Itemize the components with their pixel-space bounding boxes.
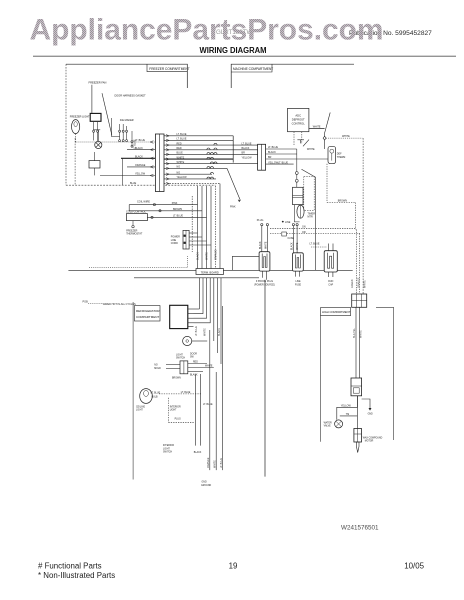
- svg-text:ORANGE: ORANGE: [357, 277, 360, 288]
- svg-text:BLACK: BLACK: [196, 252, 199, 260]
- svg-text:PLUG: PLUG: [175, 419, 181, 421]
- terminal strip: [196, 269, 223, 275]
- svg-text:DOOR: DOOR: [190, 353, 197, 355]
- svg-text:YELLOW: YELLOW: [242, 156, 253, 159]
- brown wire drop: [354, 203, 356, 230]
- compressor connector block: [352, 294, 367, 307]
- title underline: [33, 55, 456, 57]
- svg-text:LT. BLUE: LT. BLUE: [310, 242, 320, 245]
- yellow wire: [337, 396, 358, 420]
- refrigerator compartment left edge: [132, 302, 134, 480]
- rotated labels at riser bottoms: [207, 457, 223, 468]
- relay B stems: [295, 271, 297, 277]
- orange dashed wire: [270, 233, 360, 235]
- defrost riser diagonal: [325, 113, 331, 137]
- svg-text:GROUND: GROUND: [201, 485, 212, 487]
- defrost timer box: [293, 187, 304, 204]
- svg-text:RED: RED: [177, 147, 182, 150]
- defrost timer connector pins: [295, 149, 298, 187]
- rotated wire labels below connector: [353, 327, 362, 338]
- relay C feed wires: [328, 244, 333, 251]
- svg-text:GND: GND: [368, 413, 373, 415]
- svg-text:FREEZER LIGHT: FREEZER LIGHT: [70, 115, 90, 118]
- machine compartment label box: [231, 64, 273, 72]
- door harness gasket leader line: [102, 93, 112, 135]
- svg-text:W241576501: W241576501: [341, 525, 379, 532]
- defrost heater dashed drop: [326, 164, 328, 203]
- ADC adaptive defrost control box: [288, 108, 309, 131]
- svg-text:LT. BLUE: LT. BLUE: [268, 146, 278, 149]
- svg-text:LT. BLUE: LT. BLUE: [173, 215, 183, 218]
- svg-text:GREEN: GREEN: [351, 279, 354, 288]
- svg-text:LIGHT: LIGHT: [136, 410, 143, 412]
- main bus line: [68, 269, 352, 271]
- compressor relay box: [351, 378, 362, 396]
- bundle wire labels right of CN1: [177, 133, 188, 179]
- svg-text:VALVE: VALVE: [324, 425, 332, 428]
- svg-text:ORANGE: ORANGE: [214, 249, 217, 260]
- compressor drop wires: [356, 307, 360, 378]
- svg-text:WHITE: WHITE: [364, 280, 367, 288]
- svg-text:BLACK: BLACK: [259, 241, 262, 249]
- ice maker connector pins: [119, 124, 128, 142]
- ADC ground tee: [297, 140, 309, 147]
- svg-text:YELLOW: YELLOW: [135, 173, 146, 176]
- svg-text:RED: RED: [193, 362, 198, 364]
- machine compartment outline: [231, 64, 354, 88]
- icemaker branch wire: [122, 158, 124, 185]
- svg-text:NO: NO: [177, 166, 181, 169]
- svg-text:RUN: RUN: [328, 281, 333, 283]
- svg-text:19: 19: [229, 562, 238, 571]
- branch bus dotted line: [89, 256, 188, 268]
- green dashed wire: [270, 227, 355, 229]
- svg-text:WHITE: WHITE: [177, 161, 185, 164]
- svg-text:LT. BLUE: LT. BLUE: [195, 326, 198, 336]
- svg-text:PGB: PGB: [83, 300, 89, 303]
- ground drop from relay: [362, 399, 370, 409]
- high compartment left edge: [320, 316, 322, 442]
- svg-text:LT. BLUE: LT. BLUE: [203, 404, 213, 406]
- coil wire: [129, 204, 197, 206]
- relay C stems: [327, 272, 329, 277]
- second mid wire: [134, 210, 202, 212]
- svg-text:HIGH COMPARTMENT: HIGH COMPARTMENT: [322, 310, 351, 314]
- high compartment top edge right: [376, 307, 394, 440]
- motor tee bar: [93, 130, 100, 142]
- svg-text:# Functional Parts: # Functional Parts: [38, 562, 102, 571]
- freezer compartment left dotted edge: [65, 64, 67, 185]
- svg-text:YELLOW: YELLOW: [177, 176, 188, 179]
- svg-text:CEILING: CEILING: [136, 406, 145, 408]
- svg-text:BLACK: BLACK: [268, 151, 276, 154]
- svg-text:LT. BLUE: LT. BLUE: [220, 458, 223, 468]
- svg-text:3 PRONG PLUG: 3 PRONG PLUG: [256, 281, 273, 283]
- svg-text:PLUG: PLUG: [257, 219, 264, 222]
- switch leads: [166, 364, 214, 372]
- plug riser wires: [261, 224, 299, 253]
- svg-text:(POWER SOURCE): (POWER SOURCE): [254, 284, 275, 286]
- svg-text:WHITE: WHITE: [307, 148, 315, 151]
- relay wire between: [356, 396, 358, 429]
- svg-text:BLUE: BLUE: [177, 152, 184, 155]
- svg-text:AppliancePartsPros.com: AppliancePartsPros.com: [30, 13, 384, 46]
- svg-text:FREEZER COMPARTMENT: FREEZER COMPARTMENT: [149, 67, 189, 71]
- relay B line fuse: [293, 253, 304, 271]
- freezer light stem wire: [75, 134, 77, 143]
- relay C dotted leader: [311, 246, 327, 248]
- timer frame right riser: [315, 177, 317, 270]
- svg-text:THERMOSTAT: THERMOSTAT: [126, 233, 143, 236]
- svg-text:PINK: PINK: [172, 202, 178, 205]
- high compartment label box: [321, 308, 351, 316]
- svg-text:BLACK: BLACK: [135, 156, 143, 159]
- defrost timer motor: [297, 205, 304, 218]
- svg-text:GND: GND: [202, 482, 207, 484]
- pointer arrow to plug: [227, 168, 240, 200]
- line node: [282, 221, 284, 223]
- svg-text:BLK-YEL: BLK-YEL: [353, 327, 356, 338]
- labels near switch leads: [172, 362, 213, 380]
- bulb dashed wire: [159, 393, 201, 395]
- machine right dashed riser: [362, 138, 364, 294]
- water valve: [335, 420, 343, 428]
- svg-text:WHITE: WHITE: [203, 328, 206, 336]
- relay C capacitor: [324, 251, 337, 272]
- svg-text:* Non-Illustrated Parts: * Non-Illustrated Parts: [38, 571, 115, 580]
- timer frame left: [294, 205, 299, 222]
- node to CN2 white wire riser: [324, 140, 326, 149]
- harness bundle right of CN1: [164, 136, 258, 184]
- cold control output wire: [147, 216, 206, 218]
- svg-text:INTERIOR: INTERIOR: [163, 445, 174, 447]
- strip to relay jog wire: [232, 256, 259, 270]
- svg-text:MACHINE COMPARTMENT: MACHINE COMPARTMENT: [233, 67, 273, 71]
- freezer compartment inner dashed edge: [74, 138, 76, 185]
- timer diagonal feed: [302, 169, 316, 177]
- svg-text:LINE: LINE: [295, 281, 301, 283]
- gasket elbow wire: [112, 118, 120, 137]
- svg-text:ADC: ADC: [295, 114, 301, 118]
- svg-text:WHITE: WHITE: [205, 252, 208, 260]
- long interior riser wires: [210, 306, 223, 470]
- svg-text:ORANGE: ORANGE: [207, 457, 210, 468]
- timer dashed enclosure: [304, 177, 314, 211]
- compressor feed wires: [356, 229, 359, 294]
- power cord connector leads: [189, 233, 211, 245]
- svg-text:10/05: 10/05: [404, 562, 424, 571]
- svg-text:LT. BLUE: LT. BLUE: [177, 133, 187, 136]
- svg-text:MOLD: MOLD: [154, 368, 161, 370]
- svg-text:MTR: MTR: [308, 216, 313, 219]
- svg-text:BLUE: BLUE: [130, 182, 137, 185]
- node diamond: [323, 136, 326, 140]
- riser rotated labels: [196, 249, 217, 260]
- svg-text:FUSE: FUSE: [288, 237, 295, 240]
- freezer fan motor symbol: [95, 141, 102, 148]
- relay A power plug: [259, 252, 270, 271]
- svg-text:LIGHT: LIGHT: [170, 410, 177, 412]
- svg-text:WIRING DIAGRAM: WIRING DIAGRAM: [200, 45, 267, 55]
- diagram placeholder groups inserted below: [66, 64, 394, 487]
- freezer compartment bottom dashed edge: [66, 184, 216, 186]
- svg-text:WHITE: WHITE: [266, 241, 268, 249]
- tm wire: [340, 415, 358, 417]
- svg-text:WHITE: WHITE: [213, 460, 216, 468]
- svg-text:BROWN: BROWN: [172, 378, 181, 380]
- refrigerator compartment label box: [134, 306, 160, 321]
- interior switch label: [163, 445, 174, 453]
- svg-text:THERM: THERM: [337, 156, 346, 159]
- svg-text:LT. BLUE: LT. BLUE: [135, 139, 145, 142]
- freezer fan motor box: [90, 113, 101, 121]
- rotated labels above compressor connector: [351, 277, 366, 288]
- svg-text:LIGHT: LIGHT: [176, 354, 183, 356]
- svg-text:BR: BR: [242, 152, 246, 155]
- svg-text:COLD CONTROL: COLD CONTROL: [126, 211, 146, 214]
- svg-text:SWITCH: SWITCH: [163, 452, 172, 454]
- svg-text:MOTOR: MOTOR: [365, 441, 374, 443]
- relay A stems: [262, 271, 264, 278]
- interior light dashed frame: [167, 398, 169, 423]
- svg-text:CORD: CORD: [171, 242, 178, 245]
- svg-text:OR: OR: [302, 231, 306, 234]
- svg-text:TERM. BOARD: TERM. BOARD: [201, 271, 219, 275]
- svg-text:CAP: CAP: [328, 283, 333, 286]
- svg-text:WHITE: WHITE: [177, 156, 185, 159]
- brown dashed wire: [327, 202, 355, 204]
- note leader dotted: [88, 303, 102, 305]
- svg-text:COMPARTMENT: COMPARTMENT: [136, 315, 159, 319]
- svg-text:LT. BLUE: LT. BLUE: [278, 161, 288, 164]
- svg-text:PINK: PINK: [230, 205, 236, 208]
- fan connector pins: [93, 122, 99, 141]
- connector chevrons right: [166, 135, 169, 185]
- wires down from terminal strip: [194, 278, 222, 364]
- harness wires into connector CN1 (left side): [76, 142, 156, 176]
- svg-text:BR: BR: [268, 156, 272, 159]
- svg-text:BLACK: BLACK: [190, 374, 198, 377]
- svg-text:WHITE: WHITE: [205, 366, 213, 368]
- connector chevrons left: [150, 141, 153, 177]
- connector block CN1: [155, 134, 164, 192]
- plug riser rotated labels: [259, 241, 299, 250]
- svg-text:LT. BLUE: LT. BLUE: [181, 392, 191, 394]
- svg-text:RED: RED: [177, 142, 182, 145]
- light switch labels: [154, 353, 197, 369]
- compressor probe tip: [356, 442, 359, 453]
- freezer fan lead wire: [91, 85, 93, 113]
- svg-text:GN: GN: [302, 226, 306, 229]
- svg-text:WHITE: WHITE: [360, 330, 363, 338]
- svg-text:WHITE: WHITE: [297, 242, 299, 250]
- svg-text:BROWN: BROWN: [338, 200, 347, 203]
- power cord connector: [183, 230, 189, 249]
- svg-text:BLACK: BLACK: [291, 242, 294, 250]
- svg-text:LT. BLUE: LT. BLUE: [177, 138, 187, 141]
- junction riser wire: [232, 136, 234, 163]
- secondary bus line: [134, 277, 259, 279]
- svg-text:WATER: WATER: [324, 421, 332, 424]
- svg-text:ICE MAKER: ICE MAKER: [120, 119, 134, 122]
- refrigerator control box: [170, 305, 194, 328]
- svg-text:BLACK: BLACK: [218, 328, 221, 336]
- svg-text:LT. BLUE: LT. BLUE: [242, 142, 252, 145]
- cold control box: [126, 214, 147, 221]
- svg-text:DOOR HARNESS GASKET: DOOR HARNESS GASKET: [115, 94, 147, 97]
- light switch connector: [180, 361, 188, 374]
- svg-text:WHITE: WHITE: [313, 126, 321, 129]
- svg-text:WHITE: WHITE: [342, 135, 350, 138]
- wire crossover humps: [207, 143, 217, 179]
- wire labels right of CN2: [268, 146, 288, 164]
- freezer control stem: [132, 221, 134, 226]
- freezer light bulb: [72, 120, 80, 134]
- svg-text:WAX COMPOUND: WAX COMPOUND: [363, 436, 383, 439]
- svg-text:SWITCH: SWITCH: [176, 358, 185, 360]
- wires right of CN2: [266, 149, 328, 164]
- refrigerator lamp circle: [183, 336, 208, 345]
- ADC output wire: [309, 127, 325, 129]
- compressor overload: [354, 429, 362, 443]
- svg-text:FUSE: FUSE: [295, 284, 302, 286]
- svg-text:LIGHT: LIGHT: [163, 448, 170, 450]
- ADC lower dashed leads: [294, 132, 302, 146]
- svg-text:COIL WIRE: COIL WIRE: [137, 201, 150, 204]
- svg-text:CONTROL: CONTROL: [292, 122, 306, 126]
- svg-text:BLACK: BLACK: [194, 451, 202, 454]
- defrost thermostat box freezer: [89, 161, 100, 168]
- svg-text:BLACK: BLACK: [135, 147, 143, 150]
- svg-text:WIRED HOT IN ALL CYCLES: WIRED HOT IN ALL CYCLES: [103, 303, 136, 306]
- svg-text:BROWN: BROWN: [173, 208, 182, 211]
- svg-text:ORANGE: ORANGE: [135, 164, 146, 167]
- svg-text:BULB: BULB: [152, 396, 158, 398]
- dotted white wire to right: [326, 137, 362, 139]
- freezer compartment outline: [66, 64, 187, 88]
- svg-text:NO: NO: [177, 171, 181, 174]
- svg-text:BLACK: BLACK: [242, 147, 250, 150]
- interior light riser wires: [196, 374, 201, 446]
- coil wire left loop: [129, 205, 134, 211]
- freezer compartment label box: [147, 64, 190, 71]
- connector block CN2: [258, 144, 266, 170]
- defrost thermostat component: [328, 146, 336, 163]
- svg-text:DEFROST: DEFROST: [292, 118, 305, 122]
- fuse component: [282, 232, 287, 236]
- ice maker plug pins right: [131, 131, 133, 147]
- svg-text:NO: NO: [154, 365, 158, 367]
- ground long riser: [264, 280, 266, 477]
- svg-text:REFRIGERATOR: REFRIGERATOR: [136, 309, 160, 313]
- wire labels before CN2: [242, 142, 253, 159]
- svg-text:INTERIOR: INTERIOR: [170, 406, 181, 408]
- harness riser wires to terminal strip: [192, 184, 220, 270]
- svg-text:FREEZER FAN: FREEZER FAN: [89, 81, 107, 85]
- svg-text:LINE: LINE: [285, 221, 291, 224]
- rotated wire labels right of control box: [195, 326, 221, 336]
- left harness wire labels: [135, 139, 146, 176]
- refrigerator light bulb: [140, 389, 153, 404]
